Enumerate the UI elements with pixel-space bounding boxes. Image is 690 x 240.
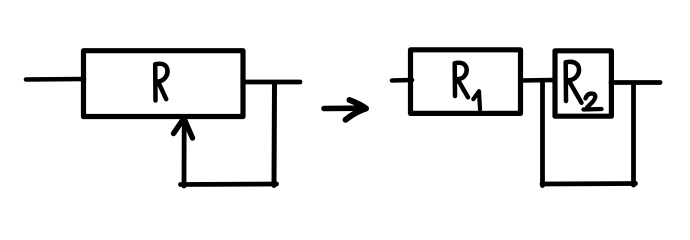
wire from wiper down-right loop	[181, 182, 277, 187]
wire right vertical of loop	[272, 84, 278, 186]
value label R	[155, 64, 167, 101]
wiper arrow of potentiometer	[182, 119, 187, 186]
value label R1	[455, 63, 468, 98]
wire between R1 and R2	[521, 78, 553, 83]
wire left terminal of potentiometer	[26, 77, 84, 82]
wire right terminal of R2	[611, 80, 660, 85]
wire bottom of bypass loop	[542, 181, 636, 186]
transformation arrow	[324, 105, 360, 111]
resistor R (potentiometer body)	[84, 51, 244, 117]
wire right terminal of potentiometer	[244, 80, 300, 85]
resistor R2	[555, 51, 611, 116]
resistor R1	[411, 50, 521, 114]
wire right vertical of bypass loop	[631, 83, 636, 185]
value label R2	[566, 62, 582, 103]
wire left vertical of bypass loop	[540, 81, 545, 186]
wire left terminal of R1	[392, 78, 412, 83]
